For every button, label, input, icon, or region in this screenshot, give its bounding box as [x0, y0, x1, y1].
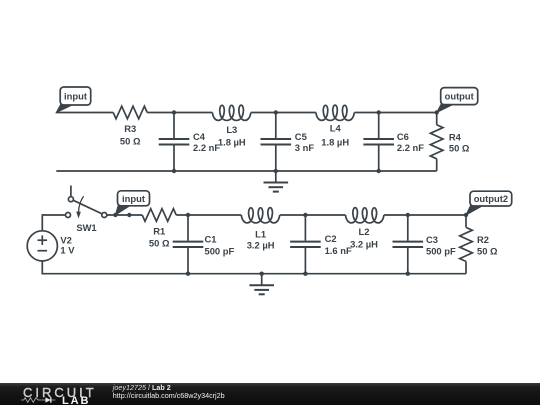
svg-text:output2: output2: [474, 193, 508, 204]
svg-text:50 Ω: 50 Ω: [120, 136, 141, 147]
svg-text:3.2 µH: 3.2 µH: [247, 240, 275, 251]
svg-text:C2: C2: [325, 233, 337, 244]
svg-text:C1: C1: [205, 234, 217, 245]
svg-text:500 pF: 500 pF: [426, 245, 456, 256]
svg-text:1.8 µH: 1.8 µH: [218, 136, 246, 147]
svg-text:R2: R2: [477, 234, 489, 245]
svg-text:L4: L4: [330, 123, 342, 134]
svg-text:1 V: 1 V: [60, 244, 75, 255]
svg-text:R1: R1: [153, 226, 165, 237]
svg-text:500 pF: 500 pF: [205, 246, 235, 257]
svg-text:50 Ω: 50 Ω: [477, 245, 498, 256]
svg-text:3.2 µH: 3.2 µH: [350, 238, 378, 249]
svg-text:L2: L2: [359, 226, 370, 237]
svg-text:L3: L3: [226, 124, 237, 135]
svg-text:output: output: [445, 91, 474, 102]
svg-text:C4: C4: [193, 131, 206, 142]
svg-text:C3: C3: [426, 234, 438, 245]
svg-text:input: input: [122, 193, 145, 204]
svg-text:1.6 nF: 1.6 nF: [325, 245, 352, 256]
svg-text:L1: L1: [255, 228, 266, 239]
svg-text:3 nF: 3 nF: [295, 142, 315, 153]
svg-text:C5: C5: [295, 131, 307, 142]
svg-text:1.8 µH: 1.8 µH: [321, 136, 349, 147]
svg-text:50 Ω: 50 Ω: [149, 238, 170, 249]
svg-text:SW1: SW1: [76, 222, 96, 233]
svg-text:R4: R4: [449, 132, 462, 143]
svg-text:R3: R3: [124, 123, 136, 134]
svg-text:50 Ω: 50 Ω: [449, 143, 470, 154]
svg-text:2.2 nF: 2.2 nF: [193, 142, 220, 153]
svg-text:input: input: [64, 91, 87, 102]
svg-text:C6: C6: [397, 131, 409, 142]
svg-text:2.2 nF: 2.2 nF: [397, 142, 424, 153]
